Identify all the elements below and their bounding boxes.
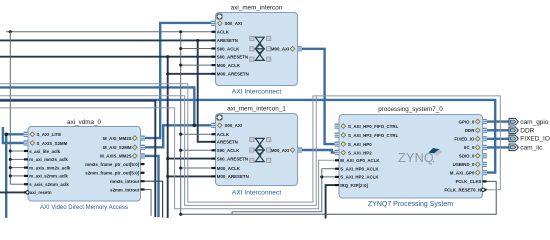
- svg-text:FIXED_IO: FIXED_IO: [454, 137, 475, 142]
- svg-text:S00_ARESETN: S00_ARESETN: [217, 55, 248, 60]
- svg-text:S00_ACLK: S00_ACLK: [217, 148, 240, 153]
- svg-text:ACLK: ACLK: [217, 30, 230, 35]
- svg-text:S00_AXI: S00_AXI: [225, 21, 243, 26]
- svg-text:M_AXI_MM2S: M_AXI_MM2S: [103, 136, 132, 141]
- svg-text:FIXED_IO: FIXED_IO: [520, 136, 550, 143]
- svg-text:M00_ACLK: M00_ACLK: [217, 63, 241, 68]
- svg-text:s_axi_lite_aclk: s_axi_lite_aclk: [29, 149, 60, 154]
- svg-text:DDR: DDR: [520, 128, 534, 135]
- svg-text:M_AXI_GP0: M_AXI_GP0: [450, 170, 475, 175]
- svg-text:mm2s_frame_ptr_out[5:0]: mm2s_frame_ptr_out[5:0]: [85, 162, 139, 167]
- svg-text:S00_ACLK: S00_ACLK: [217, 46, 240, 51]
- svg-text:mm2s_introut: mm2s_introut: [110, 179, 140, 184]
- svg-text:S_AXI_HP0: S_AXI_HP0: [348, 142, 372, 147]
- svg-text:s_axis_s2mm_aclk: s_axis_s2mm_aclk: [29, 182, 69, 187]
- svg-text:S_AXIS_S2MM: S_AXIS_S2MM: [37, 141, 68, 146]
- svg-text:S00_ARESETN: S00_ARESETN: [217, 156, 248, 161]
- svg-text:M00_AXI: M00_AXI: [271, 47, 289, 52]
- svg-text:cam_iic: cam_iic: [520, 145, 543, 152]
- svg-text:S_AXI_HP0_ACLK: S_AXI_HP0_ACLK: [340, 167, 379, 172]
- svg-text:M_AXI_S2MM: M_AXI_S2MM: [103, 145, 132, 150]
- svg-text:SDIO_0: SDIO_0: [459, 154, 475, 159]
- svg-text:AXI Interconnect: AXI Interconnect: [232, 88, 282, 95]
- svg-text:M_AXI_GP0_ACLK: M_AXI_GP0_ACLK: [340, 158, 380, 163]
- svg-text:S00_AXI: S00_AXI: [225, 123, 243, 128]
- svg-text:ACLK: ACLK: [217, 132, 230, 137]
- svg-text:FCLK_RESET0_N: FCLK_RESET0_N: [444, 188, 481, 193]
- svg-text:M00_ARESETN: M00_ARESETN: [217, 174, 249, 179]
- svg-text:cam_gpio: cam_gpio: [520, 119, 549, 126]
- svg-text:M00_ACLK: M00_ACLK: [217, 166, 241, 171]
- svg-text:axi_vdma_0: axi_vdma_0: [67, 119, 101, 126]
- svg-text:ZYNQ: ZYNQ: [398, 151, 434, 165]
- svg-text:ARESETN: ARESETN: [217, 140, 238, 145]
- svg-text:IRQ_F2P[2:0]: IRQ_F2P[2:0]: [340, 183, 368, 188]
- svg-text:FCLK_CLK0: FCLK_CLK0: [456, 179, 482, 184]
- svg-text:M_AXIS_MM2S: M_AXIS_MM2S: [100, 154, 132, 159]
- svg-text:m_axi_mm2s_aclk: m_axi_mm2s_aclk: [29, 157, 68, 162]
- svg-text:S_AXI_HP0_FIFO_CTRL: S_AXI_HP0_FIFO_CTRL: [348, 124, 399, 129]
- svg-text:M00_ARESETN: M00_ARESETN: [217, 72, 249, 77]
- svg-text:axi_mem_intercon_1: axi_mem_intercon_1: [227, 105, 286, 112]
- svg-text:GPIO_0: GPIO_0: [459, 119, 475, 124]
- svg-text:ARESETN: ARESETN: [217, 38, 238, 43]
- svg-text:m_axis_mm2s_aclk: m_axis_mm2s_aclk: [29, 165, 71, 170]
- svg-text:AXI Interconnect: AXI Interconnect: [232, 190, 282, 197]
- svg-text:DDR: DDR: [465, 128, 475, 133]
- svg-text:axi_mem_intercon: axi_mem_intercon: [231, 4, 283, 11]
- svg-text:AXI Video Direct Memory Access: AXI Video Direct Memory Access: [40, 205, 128, 211]
- svg-text:IIC_0: IIC_0: [464, 145, 475, 150]
- svg-text:s2mm_introut: s2mm_introut: [110, 187, 140, 192]
- svg-text:m_axi_s2mm_aclk: m_axi_s2mm_aclk: [29, 174, 68, 179]
- svg-text:processing_system7_0: processing_system7_0: [378, 106, 443, 113]
- svg-text:S_AXI_LITE: S_AXI_LITE: [37, 132, 62, 137]
- svg-text:axi_resetn: axi_resetn: [30, 190, 52, 195]
- svg-text:S_AXI_HP2_FIFO_CTRL: S_AXI_HP2_FIFO_CTRL: [348, 133, 399, 138]
- svg-text:ZYNQ7 Processing System: ZYNQ7 Processing System: [368, 201, 453, 208]
- svg-text:S_AXI_HP2: S_AXI_HP2: [348, 150, 372, 155]
- svg-text:S_AXI_HP2_ACLK: S_AXI_HP2_ACLK: [340, 175, 379, 180]
- svg-text:USBIND_0: USBIND_0: [453, 162, 475, 167]
- svg-text:s2mm_frame_ptr_out[5:0]: s2mm_frame_ptr_out[5:0]: [85, 171, 139, 176]
- svg-text:M00_AXI: M00_AXI: [271, 148, 289, 153]
